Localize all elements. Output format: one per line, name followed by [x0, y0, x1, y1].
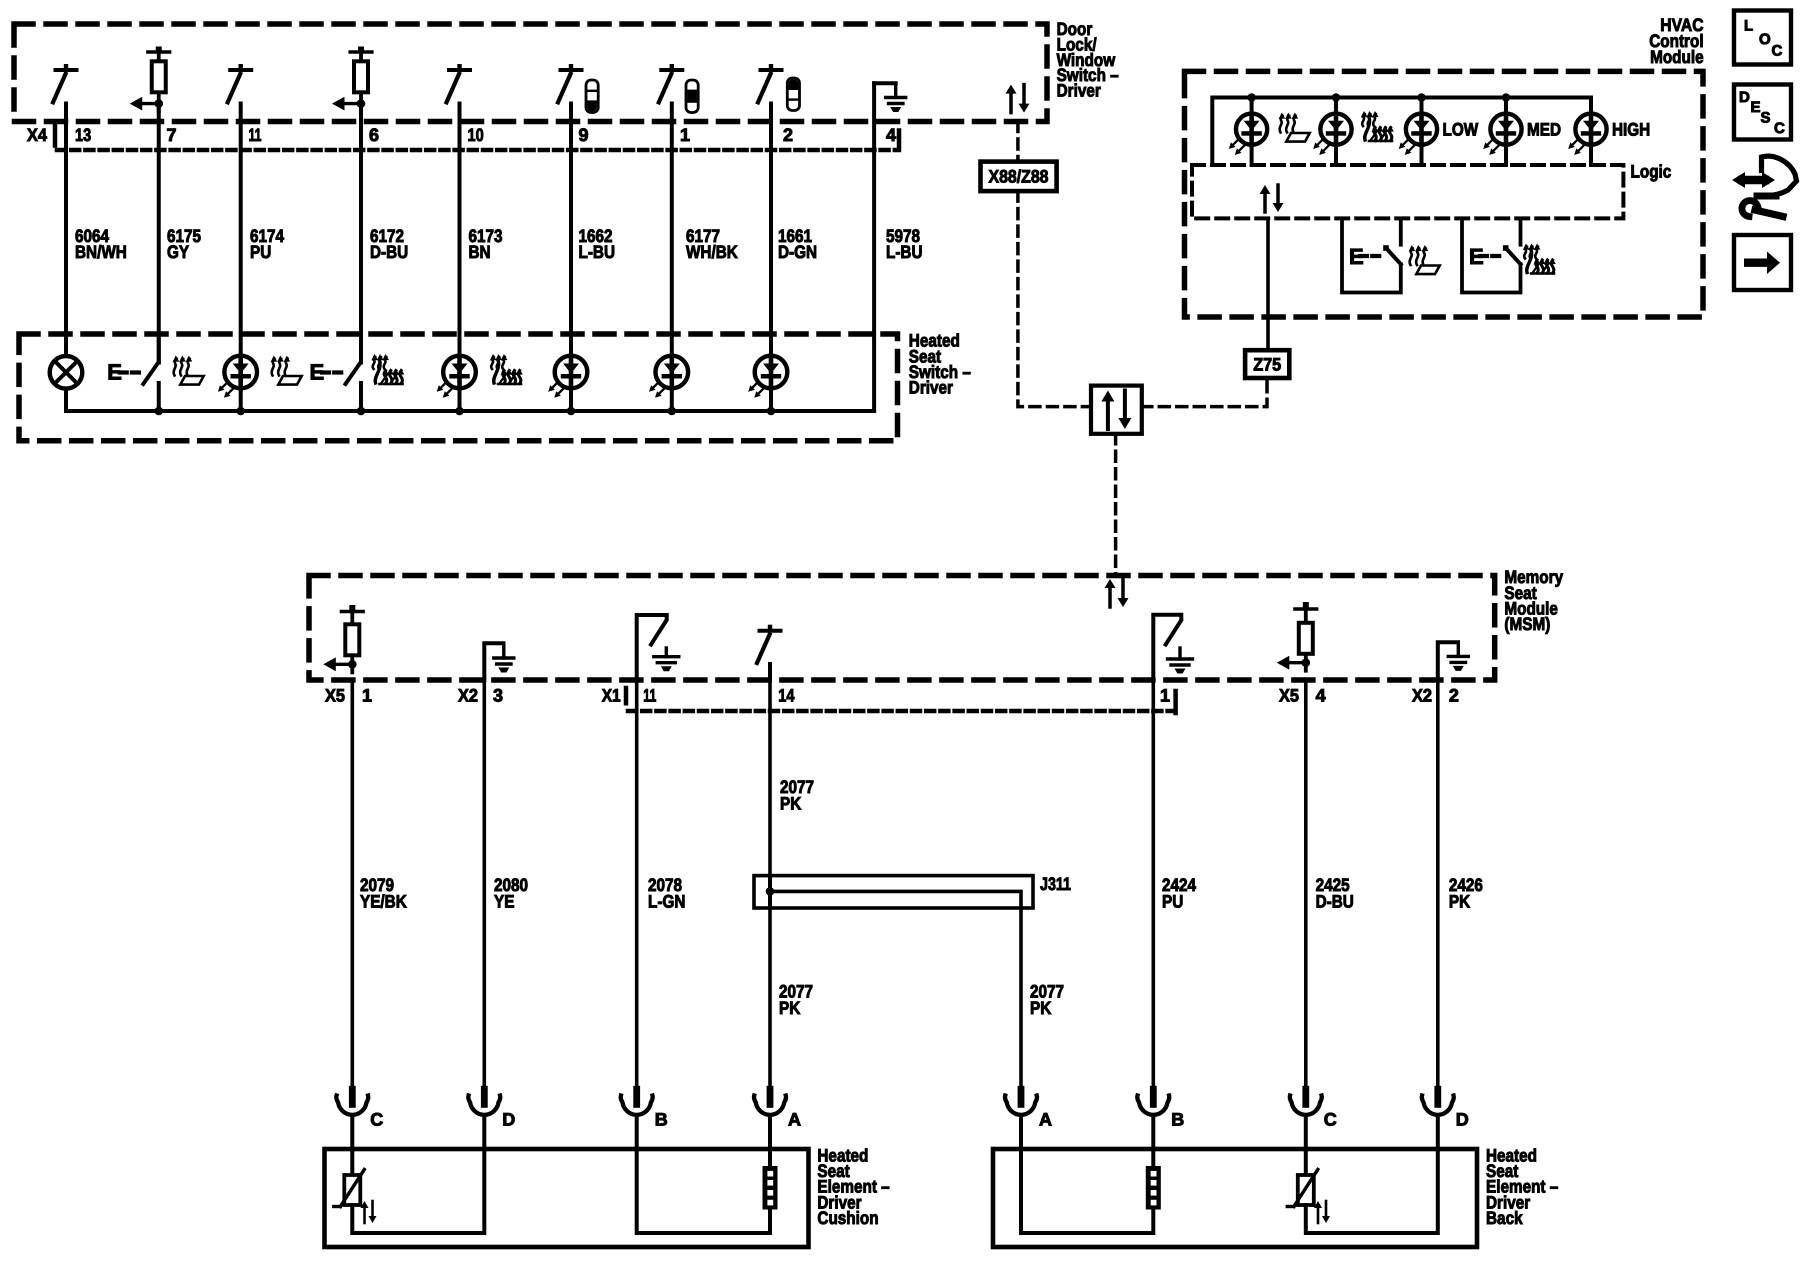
svg-text:BN: BN	[469, 242, 491, 262]
Memory Seat Module label	[1504, 567, 1563, 634]
wire label 6174 PU	[250, 226, 284, 262]
MSM switch to ground pin X1-11	[637, 615, 679, 680]
connector terminal label D	[502, 1110, 515, 1130]
svg-text:C: C	[1772, 43, 1783, 60]
splice J311 box	[754, 876, 1033, 908]
svg-text:1: 1	[680, 125, 690, 145]
MSM connector X5 label right	[1279, 686, 1299, 706]
HVAC Logic label	[1631, 162, 1672, 182]
svg-text:S: S	[1761, 110, 1771, 127]
svg-text:D: D	[502, 1110, 515, 1130]
svg-text:C: C	[370, 1110, 383, 1130]
LED pin 1	[649, 356, 688, 398]
svg-text:Module: Module	[1650, 47, 1704, 67]
seat cushion heat icon 2	[271, 356, 302, 385]
wire through J311	[768, 876, 772, 908]
LED pin 10	[437, 356, 476, 398]
svg-text:J311: J311	[1040, 874, 1071, 894]
splice J311 label	[1040, 874, 1071, 894]
MSM connector X1 tick right	[1173, 691, 1178, 713]
svg-text:6: 6	[369, 125, 379, 145]
wire label 2079 YE/BK	[360, 875, 407, 911]
bus junction dots	[154, 407, 775, 416]
wire pin 10 to LED	[458, 104, 462, 357]
wire label 5978 L-BU	[886, 226, 923, 262]
pin 11 label	[249, 125, 262, 145]
wire terminal D into element box	[482, 1117, 486, 1151]
connector X4 label	[27, 125, 47, 145]
wire terminal B into element box	[635, 1117, 639, 1151]
HVAC LED 1	[1229, 98, 1267, 166]
MSM fuse feed pin X5-4	[1277, 602, 1317, 671]
svg-text:MED: MED	[1527, 120, 1561, 140]
MSM pin 14 label	[778, 686, 794, 706]
switch contact pin 10	[447, 64, 471, 102]
MSM switch pin 14	[757, 625, 781, 680]
HVAC label HIGH	[1612, 120, 1650, 140]
back thermistor arrows	[1314, 1201, 1330, 1223]
connector terminal C at x=1305.8	[1290, 1086, 1322, 1115]
MSM pin 4 label	[1316, 686, 1326, 706]
pin 13 label	[75, 125, 91, 145]
wire Z75 to HVAC logic	[1266, 218, 1270, 350]
svg-text:X2: X2	[458, 686, 478, 706]
HVAC Control Module box	[1185, 71, 1704, 317]
wire label 2080 YE	[494, 875, 528, 911]
svg-text:A: A	[788, 1110, 801, 1130]
switch box ground bus	[66, 409, 874, 413]
wire label 1661 D-GN	[778, 226, 817, 262]
svg-text:(MSM): (MSM)	[1504, 614, 1550, 634]
wire label 6172 D-BU	[370, 226, 408, 262]
MSM connector X1 label	[602, 686, 621, 706]
MSM connector X2 label left	[458, 686, 478, 706]
svg-text:BN/WH: BN/WH	[75, 242, 127, 262]
MSM pin 1 label right	[1160, 686, 1170, 706]
svg-text:7: 7	[167, 125, 177, 145]
wire pin 4 to bus	[872, 83, 876, 411]
seat cushion heat icon 1	[173, 356, 204, 385]
wire label 6177 WH/BK	[686, 226, 738, 262]
wire pin 13 to lamp	[64, 104, 68, 357]
wire lamp to bus	[64, 389, 68, 411]
svg-text:E: E	[1751, 99, 1761, 116]
connector X4 tick right	[897, 131, 902, 149]
inline connector box with arrows	[1091, 386, 1142, 434]
svg-text:PU: PU	[1162, 891, 1183, 911]
wire terminal C into element box	[350, 1117, 354, 1151]
svg-text:L-GN: L-GN	[648, 891, 685, 911]
MSM fuse feed pin X5-1	[323, 605, 363, 672]
MSM connector X2 label right	[1412, 686, 1432, 706]
wire 2080 YE	[482, 680, 486, 1086]
svg-text:D-BU: D-BU	[1316, 891, 1354, 911]
svg-text:LOW: LOW	[1443, 120, 1479, 140]
wire label 2078 L-GN	[648, 875, 685, 911]
wire 2079 YE/BK	[350, 680, 354, 1086]
position indicator pill pin 9	[586, 80, 598, 113]
HVAC E-switch 1	[1342, 218, 1401, 292]
Heated Seat Element Driver Cushion label	[817, 1146, 889, 1228]
LED pin 2	[748, 356, 787, 398]
Door Lock/Window Switch - Driver label	[1057, 19, 1119, 101]
serial data dashed wire to X88/Z88	[1016, 122, 1020, 162]
HVAC E-switch 1 cushion icon	[1409, 245, 1440, 274]
svg-text:D: D	[1739, 89, 1750, 106]
wire LED10 to bus	[458, 388, 462, 411]
svg-text:1: 1	[362, 686, 372, 706]
wire label 6175 GY	[167, 226, 201, 262]
MSM connector X1 strip line	[628, 709, 1175, 714]
svg-text:B: B	[1171, 1110, 1184, 1130]
serial data arrows in door-lock box	[1006, 85, 1030, 113]
pin 7 label	[167, 125, 177, 145]
svg-text:14: 14	[778, 686, 794, 706]
connector terminal label A	[788, 1110, 801, 1130]
svg-text:10: 10	[468, 125, 484, 145]
Heated Seat Element Driver Back label	[1486, 1146, 1558, 1228]
wire pin 1 to LED	[670, 104, 674, 357]
wire pin 11 to LED	[239, 104, 243, 357]
svg-text:PK: PK	[1449, 891, 1470, 911]
svg-text:D: D	[1456, 1110, 1469, 1130]
svg-text:Driver: Driver	[909, 378, 953, 398]
wire pin 9 to LED	[569, 104, 573, 357]
svg-text:O: O	[1759, 31, 1771, 48]
connector X88/Z88 box	[981, 162, 1057, 192]
svg-text:PK: PK	[779, 998, 800, 1018]
wire label 6173 BN	[469, 226, 503, 262]
svg-text:X88/Z88: X88/Z88	[989, 167, 1049, 187]
LED pin 11	[218, 356, 257, 398]
legend DESC box	[1734, 85, 1791, 140]
cushion heater element	[763, 1150, 778, 1210]
connector X88/Z88 label	[989, 167, 1049, 187]
svg-text:L-BU: L-BU	[579, 242, 616, 262]
cushion thermistor arrows	[361, 1201, 377, 1223]
E-switch pin 6	[310, 334, 362, 411]
wire 2077 PK lower left	[768, 908, 772, 1086]
pin 9 label	[579, 125, 589, 145]
pin 6 label	[369, 125, 379, 145]
switch contact pin 1	[659, 64, 683, 102]
MSM pin 3 label	[493, 686, 503, 706]
wire LED11 to bus	[239, 388, 243, 411]
cushion thermistor loop to D	[352, 1150, 484, 1233]
HVAC label MED	[1527, 120, 1561, 140]
svg-text:9: 9	[579, 125, 589, 145]
HVAC E-switch 2 back icon	[1523, 244, 1556, 274]
svg-text:11: 11	[249, 125, 262, 145]
MSM serial data arrows	[1105, 579, 1129, 607]
legend LOC box	[1734, 11, 1791, 65]
splice Z75 box	[1245, 350, 1289, 378]
legend forward arrow box	[1734, 235, 1791, 290]
svg-text:YE: YE	[494, 891, 514, 911]
wire label 2077 PK lower right	[1030, 982, 1064, 1018]
fuse feed pin 6	[332, 47, 372, 112]
switch contact pin 11	[228, 64, 252, 102]
svg-text:X5: X5	[1279, 686, 1299, 706]
connector terminal label A	[1039, 1110, 1052, 1130]
back thermistor	[1287, 1150, 1318, 1207]
MSM ground pin X2-2	[1438, 642, 1469, 680]
wire label 2425 D-BU	[1316, 875, 1354, 911]
position indicator pill pin 1	[686, 80, 698, 113]
wire 2425 D-BU	[1304, 680, 1308, 1086]
svg-text:X4: X4	[27, 125, 47, 145]
HVAC bus junction dots	[1247, 93, 1510, 102]
serial data dashed wire to Z75	[1142, 378, 1267, 407]
wire pin 2 to LED	[769, 104, 773, 357]
connector terminal label B	[655, 1110, 668, 1130]
connector X4 tick left	[53, 125, 58, 146]
svg-text:YE/BK: YE/BK	[360, 891, 407, 911]
svg-text:A: A	[1039, 1110, 1052, 1130]
wire 2077 PK lower right	[1019, 908, 1023, 1086]
svg-text:PK: PK	[780, 793, 801, 813]
HVAC seat cushion heat icon	[1279, 113, 1310, 142]
splice J311 bus wire	[766, 887, 1021, 908]
switch contact pin 2	[758, 64, 782, 102]
connector terminal C at x=352.3	[336, 1086, 368, 1115]
wire 2077 PK upper	[768, 680, 772, 876]
MSM switch to ground pin 1	[1153, 615, 1192, 680]
wire terminal B into element box	[1151, 1117, 1155, 1151]
MSM pin 2 label	[1449, 686, 1459, 706]
svg-text:Logic: Logic	[1631, 162, 1672, 182]
fuse feed pin 7	[130, 47, 170, 112]
svg-text:C: C	[1324, 1110, 1337, 1130]
MSM connector X5 label left	[325, 686, 345, 706]
seat back heat icon 2	[490, 354, 523, 384]
pin 4 label	[886, 125, 896, 145]
Heated Seat Switch - Driver label	[909, 331, 971, 398]
HVAC E-switch 2	[1462, 218, 1521, 292]
MSM ground pin X2-3	[484, 643, 514, 680]
connector terminal B at x=1153.3	[1137, 1086, 1169, 1115]
svg-text:GY: GY	[167, 242, 189, 262]
svg-text:PK: PK	[1030, 998, 1051, 1018]
svg-text:C: C	[1774, 120, 1785, 137]
wire LED9 to bus	[569, 388, 573, 411]
svg-text:11: 11	[643, 686, 656, 706]
back thermistor loop to D	[1306, 1150, 1438, 1233]
wire terminal A into element box	[768, 1117, 772, 1151]
svg-text:Back: Back	[1486, 1208, 1523, 1228]
HVAC LED 4	[1483, 98, 1521, 166]
connector terminal label C	[1324, 1110, 1337, 1130]
HVAC Logic box	[1192, 165, 1623, 218]
Door Lock/Window Switch - Driver module box	[14, 24, 1047, 122]
connector terminal label D	[1456, 1110, 1469, 1130]
back heater loop to A	[1021, 1150, 1153, 1233]
wire label 1662 L-BU	[579, 226, 616, 262]
connector terminal label B	[1171, 1110, 1184, 1130]
HVAC LED 3	[1399, 98, 1437, 166]
HVAC logic serial arrows	[1260, 185, 1284, 212]
wire 2424 PU	[1152, 680, 1156, 1086]
connector terminal A at x=1021	[1005, 1086, 1037, 1115]
svg-text:4: 4	[1316, 686, 1326, 706]
indicator lamp pin 13	[50, 356, 83, 389]
connector terminal label C	[370, 1110, 383, 1130]
switch contact pin 13	[53, 64, 77, 102]
svg-text:13: 13	[75, 125, 91, 145]
pin 2 label	[783, 125, 793, 145]
wire label 2426 PK	[1449, 875, 1483, 911]
wire pin 6 to E-switch	[359, 104, 363, 363]
Heated Seat Switch - Driver module box	[19, 334, 898, 441]
wire pin 7 to E-switch	[157, 104, 161, 363]
svg-text:D-GN: D-GN	[778, 242, 817, 262]
cushion heater loop to B	[637, 1150, 770, 1233]
pin 1 label	[680, 125, 690, 145]
connector X4 strip line	[57, 148, 899, 153]
Heated Seat Element Driver Back box	[993, 1149, 1477, 1247]
pin 10 label	[468, 125, 484, 145]
Memory Seat Module box	[309, 576, 1495, 681]
wire terminal A into element box	[1019, 1117, 1023, 1151]
seat back heat icon 1	[371, 354, 404, 384]
wire label 2077 PK lower left	[779, 982, 813, 1018]
svg-text:B: B	[655, 1110, 668, 1130]
svg-text:HIGH: HIGH	[1612, 120, 1650, 140]
HVAC label LOW	[1443, 120, 1479, 140]
svg-text:D-BU: D-BU	[370, 242, 408, 262]
splice Z75 label	[1253, 355, 1281, 375]
svg-text:Z75: Z75	[1253, 355, 1281, 375]
connector terminal A at x=770	[754, 1086, 786, 1115]
back heater element	[1146, 1150, 1161, 1210]
wire label 2424 PU	[1162, 875, 1196, 911]
svg-text:X5: X5	[325, 686, 345, 706]
svg-text:4: 4	[886, 125, 896, 145]
HVAC LED 2	[1313, 98, 1351, 166]
legend diagnostic arrows and wrench icon	[1732, 156, 1797, 216]
svg-text:2: 2	[1449, 686, 1459, 706]
svg-text:2: 2	[783, 125, 793, 145]
wire label 2077 PK upper	[780, 777, 814, 813]
E-switch pin 7	[107, 334, 159, 411]
LED pin 9	[548, 356, 587, 398]
svg-text:PU: PU	[250, 242, 271, 262]
HVAC Control Module label	[1649, 15, 1703, 67]
wire 2426 PK	[1436, 680, 1440, 1086]
MSM pin 11 label	[643, 686, 656, 706]
svg-text:Cushion: Cushion	[817, 1208, 878, 1228]
HVAC seat back heat icon	[1361, 111, 1394, 141]
svg-text:X1: X1	[602, 686, 621, 706]
svg-text:3: 3	[493, 686, 503, 706]
wire LED1 to bus	[670, 388, 674, 411]
Heated Seat Element Driver Cushion box	[325, 1149, 809, 1247]
serial data dashed wire to MSM	[1114, 434, 1118, 576]
cushion thermistor	[334, 1150, 365, 1207]
svg-text:1: 1	[1160, 686, 1170, 706]
svg-text:X2: X2	[1412, 686, 1432, 706]
svg-text:L-BU: L-BU	[886, 242, 923, 262]
serial data dashed wire X88/Z88 down and right	[1018, 191, 1091, 407]
svg-text:L: L	[1744, 18, 1753, 35]
connector terminal B at x=636.7	[621, 1086, 653, 1115]
wire terminal D into element box	[1436, 1117, 1440, 1151]
HVAC LED 5	[1568, 98, 1606, 166]
svg-text:Driver: Driver	[1057, 81, 1101, 101]
wire terminal C into element box	[1304, 1117, 1308, 1151]
ground symbol pin 4	[874, 83, 906, 112]
svg-text:WH/BK: WH/BK	[686, 242, 738, 262]
wire LED2 to bus	[769, 388, 773, 411]
switch contact pin 9	[558, 64, 582, 102]
wire label 6064 BN/WH	[75, 226, 127, 262]
HVAC LED supply bus	[1212, 98, 1591, 166]
MSM pin 1 label left	[362, 686, 372, 706]
MSM connector X1 tick left	[624, 688, 629, 706]
wire 2078 L-GN	[635, 680, 639, 1086]
connector terminal D at x=484.3	[468, 1086, 500, 1115]
position indicator pill pin 2	[787, 78, 799, 111]
connector terminal D at x=1437.8	[1422, 1086, 1454, 1115]
